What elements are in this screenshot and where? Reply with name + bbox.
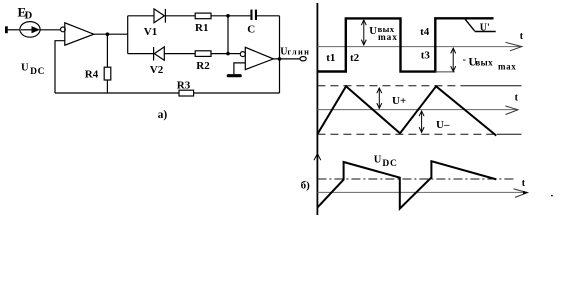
wire V1 to R1 xyxy=(165,15,195,17)
capacitor C plates xyxy=(250,10,252,20)
wire feedback vertical C/output/bottom xyxy=(279,16,281,93)
wire branch split vertical xyxy=(127,16,129,54)
svg-text:вых: вых xyxy=(475,57,493,67)
plot2 top dashed line xyxy=(317,85,461,87)
plot2 t-axis xyxy=(317,109,516,111)
wire bottom rail right xyxy=(194,92,280,94)
resistor R1 xyxy=(195,13,211,19)
op-amp U1 xyxy=(65,23,94,45)
axis 3 up-arrow xyxy=(314,154,321,161)
measure arrow Uvyh max xyxy=(361,20,366,45)
svg-text:DC: DC xyxy=(30,67,45,77)
diode V1 xyxy=(154,9,164,23)
svg-text:t2: t2 xyxy=(350,52,360,64)
wire node B to op-amp U2 xyxy=(228,53,240,55)
plot3 t-axis xyxy=(317,191,526,193)
node R4 tap xyxy=(106,32,110,36)
svg-text:U+: U+ xyxy=(392,95,406,107)
svg-text:U: U xyxy=(369,26,377,37)
wire capacitor to feedback vertical xyxy=(257,15,280,17)
wire node to R4 xyxy=(106,34,108,67)
wire U1 + input xyxy=(55,41,65,93)
svg-text:t3: t3 xyxy=(421,50,431,62)
svg-text:V1: V1 xyxy=(144,26,157,38)
svg-text:max: max xyxy=(498,62,516,72)
svg-text:V2: V2 xyxy=(150,64,164,76)
wire R4 to bottom rail xyxy=(106,80,108,93)
U' droop notch xyxy=(465,19,475,31)
wire R2 to node B xyxy=(211,53,228,55)
svg-text:б): б) xyxy=(301,180,311,192)
resistor R3 xyxy=(179,90,194,96)
resistor R2 xyxy=(195,51,211,57)
svg-text:R1: R1 xyxy=(195,22,208,34)
resistor R4 xyxy=(104,67,111,80)
svg-text:U': U' xyxy=(480,22,490,33)
svg-text:.: . xyxy=(551,188,554,200)
svg-text:U: U xyxy=(280,46,287,57)
svg-text:t1: t1 xyxy=(326,52,335,64)
svg-text:U: U xyxy=(374,155,382,166)
wire top branch to V1 xyxy=(128,15,154,17)
output terminal Uglin xyxy=(300,57,306,61)
measure arrow U+ xyxy=(377,88,382,108)
node B (bottom) xyxy=(226,52,230,56)
wire source to op-amp U1 xyxy=(40,29,60,31)
wire U2 + input to ground xyxy=(234,63,245,74)
svg-text:U: U xyxy=(21,62,29,73)
wire bottom rail left xyxy=(55,92,179,94)
svg-text:t4: t4 xyxy=(420,26,430,38)
plot1 t-axis xyxy=(317,46,520,48)
svg-text:R4: R4 xyxy=(85,69,99,81)
wire R1 to node A xyxy=(211,15,228,17)
input terminal tick xyxy=(5,26,8,33)
triangle wave xyxy=(318,86,497,135)
node A (top) xyxy=(226,14,230,18)
axis vertical shared xyxy=(316,3,318,215)
wire U2 output xyxy=(273,58,300,60)
svg-text:глин: глин xyxy=(287,48,310,57)
svg-text:-: - xyxy=(463,55,466,66)
op-amp U1 inverting bubble xyxy=(61,27,66,32)
current source E_D circle xyxy=(20,22,40,38)
wire terminal to source xyxy=(8,29,20,31)
svg-text:R3: R3 xyxy=(177,79,191,91)
svg-text:а): а) xyxy=(158,109,168,121)
svg-text:C: C xyxy=(247,24,255,36)
svg-text:D: D xyxy=(25,10,33,21)
wire bottom branch to V2 xyxy=(128,53,154,55)
plot2 bottom dashed line xyxy=(317,133,497,135)
plot3 dash-dot line xyxy=(317,178,515,180)
current source arrow xyxy=(21,29,33,31)
op-amp U2 inverting bubble xyxy=(240,52,245,57)
wire node A to node B vertical xyxy=(227,16,229,54)
svg-text:R2: R2 xyxy=(196,60,210,72)
wire U1 output xyxy=(94,33,128,35)
ground xyxy=(228,74,240,77)
svg-text:U–: U– xyxy=(436,119,450,131)
svg-text:max: max xyxy=(378,33,398,43)
sawtooth wave xyxy=(318,161,497,208)
wire node A to capacitor xyxy=(228,15,250,17)
measure arrow U- xyxy=(419,111,424,132)
op-amp U2 xyxy=(245,47,273,69)
wire V2 to R2 xyxy=(164,53,195,55)
node U2 output xyxy=(278,57,282,61)
square wave U' xyxy=(318,18,494,71)
diode V2 xyxy=(153,47,155,61)
wire low-level extension xyxy=(435,71,455,73)
measure arrow -Uvyh max xyxy=(451,48,456,71)
svg-text:DC: DC xyxy=(382,159,397,169)
